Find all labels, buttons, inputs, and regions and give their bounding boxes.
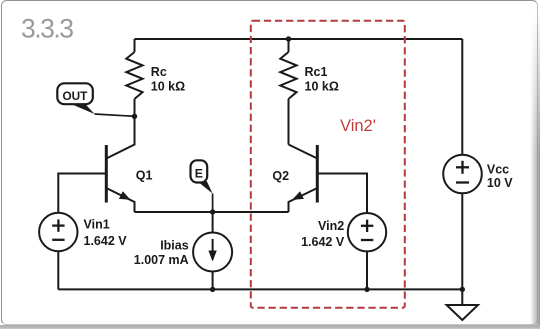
callout E [191,160,213,212]
ground [447,289,478,320]
wire top rail [135,38,463,40]
svg-text:10 V: 10 V [487,176,513,190]
callout OUT [57,83,134,116]
wire Q2 base to Vin2 [317,174,367,214]
svg-text:1.642 V: 1.642 V [84,234,128,248]
red dashed region Vin2' [251,21,405,308]
current source Ibias [193,212,232,289]
transistor Q1 [106,116,134,212]
label Vin1 value [84,218,128,249]
resistor Rc1 [280,39,296,145]
svg-text:10 kΩ: 10 kΩ [305,79,339,93]
svg-text:Vin2: Vin2 [318,219,344,233]
svg-text:Rc1: Rc1 [305,65,328,79]
node OUT junction [132,114,137,119]
svg-text:Vin2': Vin2' [340,117,376,135]
label Rc value [151,65,185,93]
label Q1 [136,168,153,182]
label Vcc value [487,162,513,190]
svg-text:Vcc: Vcc [487,162,509,176]
wire Vcc top [461,39,463,155]
svg-text:Ibias: Ibias [160,239,189,253]
svg-text:10 kΩ: 10 kΩ [151,79,185,93]
node Ibias bottom junction [210,287,215,292]
label 3.3.3 [21,13,73,43]
wire Vin1 to Q1 base [58,174,106,213]
voltage source Vin1 [39,213,77,290]
svg-text:Rc: Rc [151,65,167,79]
voltage source Vcc [443,155,482,290]
resistor Rc [126,39,142,145]
svg-text:1.007 mA: 1.007 mA [134,253,189,267]
svg-text:Q1: Q1 [136,168,153,182]
label Ibias value [134,239,189,267]
node Rc1 top junction [286,36,291,41]
label Q2 [272,169,289,183]
node E junction [210,209,215,214]
wire bottom rail [58,288,462,290]
node Vin2 bottom junction [364,287,369,292]
wire emitter rail [135,211,289,213]
voltage source Vin2 [348,213,386,289]
svg-text:OUT: OUT [62,89,88,103]
svg-text:Vin1: Vin1 [84,218,110,232]
transistor Q2 [289,145,318,213]
svg-text:1.642 V: 1.642 V [301,235,345,249]
node ground junction [460,287,465,292]
svg-text:3.3.3: 3.3.3 [21,13,73,43]
svg-text:E: E [195,166,203,180]
svg-text:Q2: Q2 [272,169,289,183]
label Vin2 value [301,219,345,249]
label Vin2' [340,117,376,135]
label Rc1 value [305,65,339,93]
